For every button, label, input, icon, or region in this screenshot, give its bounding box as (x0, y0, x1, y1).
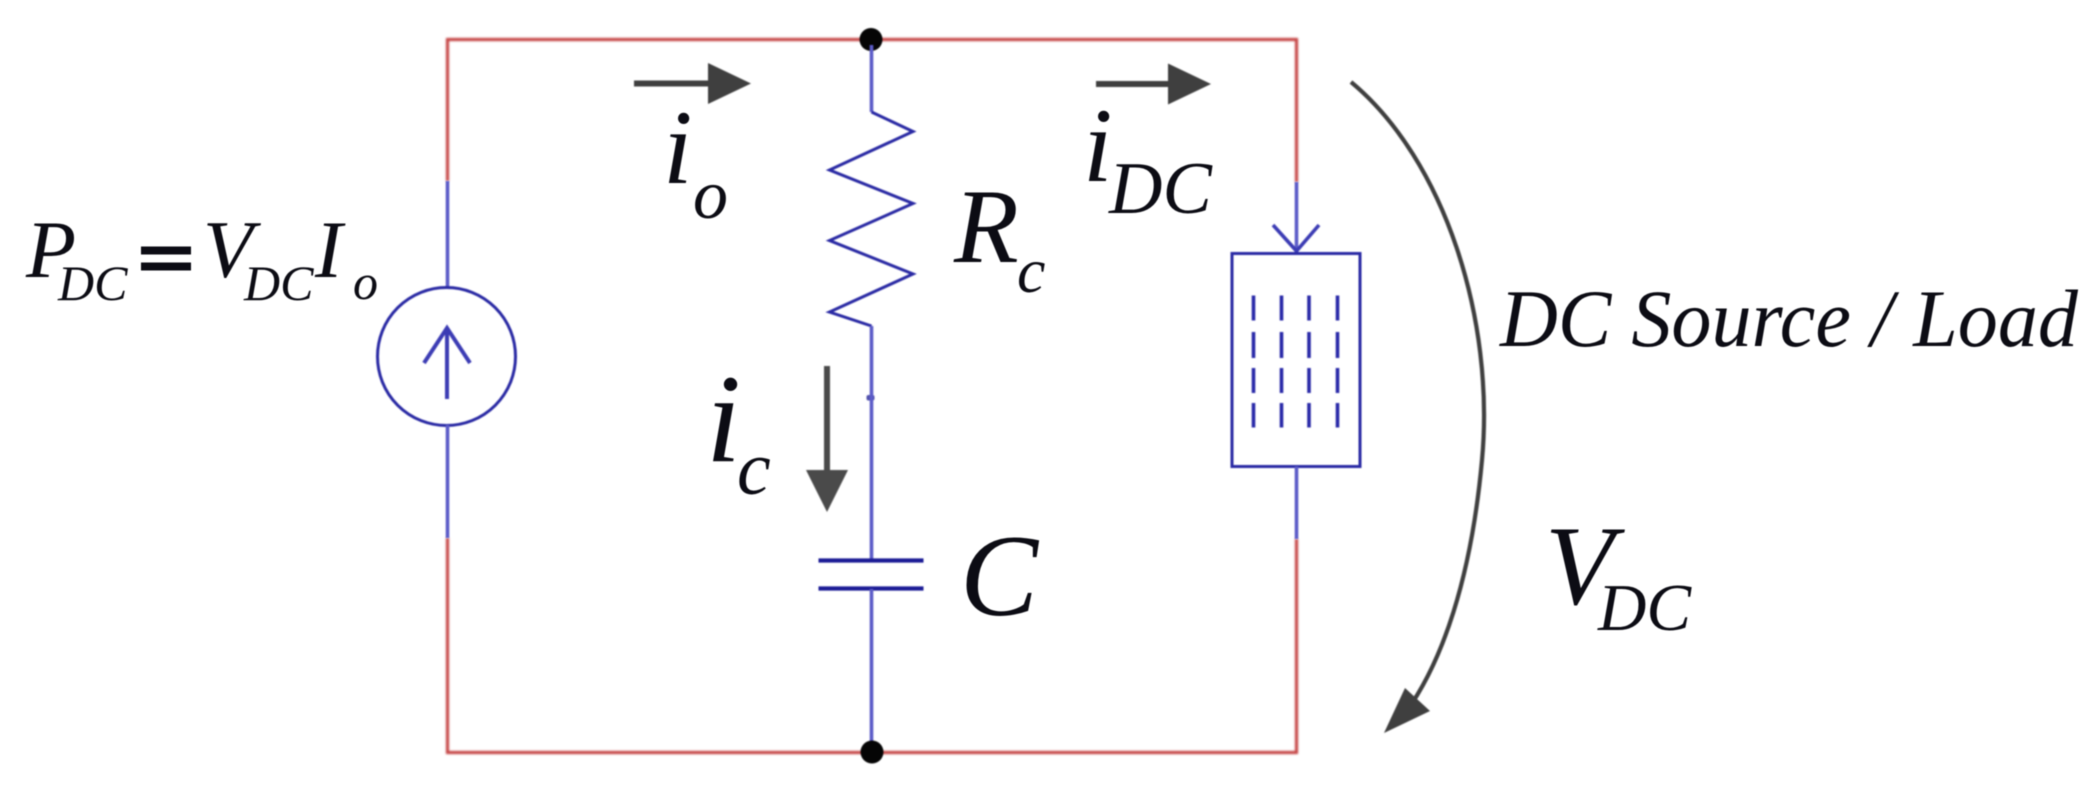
label ic (706, 350, 771, 511)
load box U1 (1232, 254, 1360, 467)
svg-text:R: R (953, 168, 1019, 285)
wire left blue upper (446, 181, 450, 289)
wire right red lower (1295, 539, 1298, 754)
wire middle lead mid (870, 326, 874, 560)
svg-text:i: i (663, 89, 692, 206)
wire bottom red (447, 751, 1297, 754)
node top junction dot (860, 28, 883, 51)
annotation arrow io (634, 63, 751, 104)
wire joint nub (867, 395, 875, 401)
resistor Rc (830, 112, 914, 326)
svg-text:o: o (693, 157, 728, 234)
svg-text:DC Source / Load: DC Source / Load (1499, 273, 2079, 364)
wire left red upper (446, 38, 449, 181)
svg-text:DC: DC (1108, 148, 1213, 230)
svg-text:DC: DC (1597, 571, 1692, 645)
capacitor C plates (819, 561, 924, 589)
svg-text:c: c (737, 427, 771, 511)
node bottom junction dot (861, 741, 884, 764)
current source I1 (378, 288, 516, 426)
annotation curved arrow VDC (1351, 82, 1484, 733)
load box dashed fill (1254, 296, 1338, 428)
svg-text:c: c (1017, 235, 1045, 306)
label iDC (1083, 87, 1213, 230)
wire right blue lower (1295, 467, 1299, 540)
wire right red upper (1295, 38, 1298, 182)
svg-text:DC: DC (243, 255, 314, 311)
annotation arrow iDC (1096, 64, 1211, 105)
label io (663, 89, 728, 234)
svg-text:I: I (314, 204, 346, 295)
annotation arrow ic (806, 366, 848, 512)
wire right blue upper (1295, 182, 1299, 252)
svg-text:i: i (706, 350, 741, 489)
load arrow into box (1273, 225, 1319, 251)
wire left red lower (446, 538, 449, 754)
current source arrow (424, 328, 470, 399)
wire middle lead top (870, 45, 874, 112)
wire middle lead bottom (870, 589, 874, 753)
svg-text:o: o (353, 254, 378, 310)
wire top red (447, 38, 1297, 41)
svg-text:C: C (960, 512, 1040, 641)
label PDC=VDCIo (25, 204, 378, 311)
svg-text:DC: DC (57, 255, 128, 311)
label Rc (953, 168, 1045, 306)
wire left blue lower (446, 425, 450, 538)
label VDC (1545, 504, 1692, 645)
